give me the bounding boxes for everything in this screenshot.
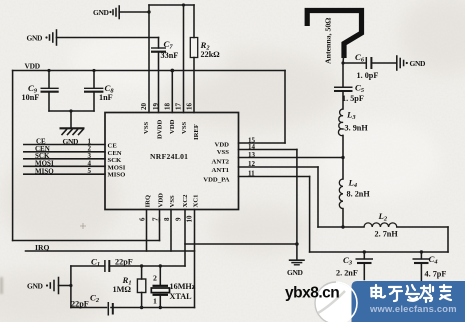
wire GND2 to C7 top xyxy=(57,37,159,39)
svg-text:22kΩ: 22kΩ xyxy=(201,50,221,59)
wire L2 rail left xyxy=(318,226,364,228)
junction node B (343,157.5) xyxy=(341,156,344,159)
svg-text:SCK: SCK xyxy=(108,157,123,164)
wire VDD rail xyxy=(13,70,285,72)
svg-text:MOSI: MOSI xyxy=(108,164,126,171)
svg-text:1. 5pF: 1. 5pF xyxy=(342,94,364,103)
capacitor C8 xyxy=(84,71,103,112)
svg-text:4. 7pF: 4. 7pF xyxy=(425,270,447,279)
svg-text:GND: GND xyxy=(410,59,427,68)
junction at (49,70.5) xyxy=(47,69,50,72)
wire pin11 VDD_PA xyxy=(239,176,310,178)
wire CEN xyxy=(24,151,105,153)
junction at (421.4,252) xyxy=(420,250,423,253)
svg-text:3. 9nH: 3. 9nH xyxy=(345,124,369,133)
wire riser (149,5)-(149,12) xyxy=(148,5,150,12)
svg-text:33nF: 33nF xyxy=(161,51,179,60)
inductor L4 xyxy=(339,179,343,209)
logo box elecfans xyxy=(336,281,465,322)
wire stub pin6 xyxy=(146,210,148,252)
svg-text:2. 2nF: 2. 2nF xyxy=(336,269,358,278)
wire L3 to node B xyxy=(342,135,344,157)
svg-text:Antenna, 50Ω: Antenna, 50Ω xyxy=(324,18,333,64)
wire H1 VDD feed to pin7 xyxy=(13,240,160,242)
svg-text:22pF: 22pF xyxy=(71,299,89,308)
wire bottom rail xyxy=(310,251,448,253)
svg-text:VDD: VDD xyxy=(158,193,165,208)
capacitor C4 xyxy=(413,252,431,281)
junction at (160.3,266) xyxy=(159,264,162,267)
ground GND2 xyxy=(27,30,57,45)
wire CE xyxy=(24,144,105,146)
junction at (183.5,5) xyxy=(182,3,185,6)
svg-text:VSS: VSS xyxy=(169,195,176,208)
wire crystal bottom xyxy=(71,307,107,309)
wire MISO xyxy=(24,173,105,175)
junction at (149,12) xyxy=(147,10,150,13)
svg-text:2. 7nH: 2. 7nH xyxy=(375,230,399,239)
wire stub pin20 (VSS) xyxy=(148,12,150,113)
svg-text:10nF: 10nF xyxy=(22,93,40,102)
svg-text:VDD: VDD xyxy=(25,62,40,71)
svg-text:VDD: VDD xyxy=(215,142,230,149)
capacitor C7 xyxy=(151,38,166,113)
wire stub pin8 xyxy=(170,210,172,252)
wire pin7 riser xyxy=(159,210,161,241)
svg-text:VSS: VSS xyxy=(143,121,150,134)
svg-text:17: 17 xyxy=(175,103,183,111)
wire pin14 drop to ground xyxy=(296,150,298,260)
wire MOSI xyxy=(24,165,105,167)
svg-text:8. 2nH: 8. 2nH xyxy=(347,190,371,199)
svg-text:6: 6 xyxy=(139,217,147,221)
junction at (138.6,308.5) xyxy=(140,306,143,309)
wire stub pin9 XC2 xyxy=(184,210,186,267)
wire stub pin17 riser xyxy=(183,5,185,113)
svg-text:IREF: IREF xyxy=(193,124,200,140)
logo text dianzi fashaoyou (stylized) xyxy=(371,285,451,302)
wire H2 IRQ line xyxy=(26,250,195,252)
svg-text:GND: GND xyxy=(27,282,44,291)
capacitor C1 xyxy=(105,260,109,272)
svg-text:CEN: CEN xyxy=(108,150,122,157)
svg-text:2: 2 xyxy=(153,274,157,283)
junction node A (343,63) xyxy=(341,61,344,64)
junction at (71,111) xyxy=(69,109,72,112)
ground GND4 (right of C6) xyxy=(397,56,426,70)
junction at (296.9,244) xyxy=(295,242,299,246)
svg-text:9: 9 xyxy=(175,217,183,221)
wire L2 rail right xyxy=(397,226,448,228)
ground GND1 (top) xyxy=(93,6,119,19)
svg-text:VDD_PA: VDD_PA xyxy=(203,176,229,183)
resistor R1 xyxy=(137,266,145,308)
inductor L2 (horizontal) xyxy=(364,223,397,227)
wire crystal top xyxy=(71,265,105,267)
crystal Y1 16MHz XTAL xyxy=(151,266,169,308)
svg-text:16MHz: 16MHz xyxy=(170,282,196,291)
svg-text:20: 20 xyxy=(140,103,148,111)
svg-text:ybx8.cn: ybx8.cn xyxy=(285,285,339,302)
wire pin14 VSS xyxy=(239,149,297,151)
svg-text:VDD: VDD xyxy=(169,119,176,134)
resistor R2 xyxy=(190,5,197,113)
wire node B to L4 xyxy=(342,158,344,180)
junction at (160.3,308.5) xyxy=(159,306,162,309)
svg-text:1. 0pF: 1. 0pF xyxy=(357,71,379,80)
junction at (70.9,285.5) xyxy=(69,284,72,287)
ground GND6 (bottom middle) xyxy=(287,260,305,277)
svg-text:CE: CE xyxy=(108,143,118,150)
scan edge smudge xyxy=(0,277,3,294)
wire crystal loop left side xyxy=(70,266,72,308)
svg-text:19: 19 xyxy=(152,103,160,111)
svg-text:MISO: MISO xyxy=(108,171,126,178)
svg-text:GND: GND xyxy=(93,8,110,17)
wire pin15 riser to VDD rail xyxy=(284,71,286,144)
junction at (94,70.5) xyxy=(92,69,95,72)
svg-text:VSS: VSS xyxy=(217,149,230,156)
svg-text:XC1: XC1 xyxy=(193,194,200,207)
wire pin11 drop xyxy=(309,177,311,253)
wire SCK xyxy=(24,158,105,160)
wire pin15 VDD xyxy=(239,142,286,144)
svg-text:1: 1 xyxy=(153,297,157,306)
svg-text:1nF: 1nF xyxy=(99,93,113,102)
wire GND1 to node xyxy=(119,11,149,13)
svg-text:7: 7 xyxy=(152,217,160,221)
scan speck xyxy=(156,218,161,223)
svg-text:GND: GND xyxy=(287,268,304,277)
capacitor C2 xyxy=(108,302,113,316)
wire stub pin18 riser xyxy=(171,71,173,113)
junction at (343,227) xyxy=(341,225,344,228)
capacitor C3 xyxy=(356,252,374,280)
wire H3 crystal-gnd link xyxy=(185,243,297,245)
capacitor C5 xyxy=(334,63,353,109)
ground GND5 (earth below C9/C8) xyxy=(60,111,85,146)
op-amp U1 nRF24L01 IC body xyxy=(105,113,239,210)
svg-text:NRF24L01: NRF24L01 xyxy=(150,152,188,161)
ground GND3 (crystal) xyxy=(27,278,71,294)
capacitor C9 xyxy=(41,71,59,112)
wire right corner drop xyxy=(447,227,449,252)
svg-text:8: 8 xyxy=(163,217,171,221)
antenna (50 Ohm) xyxy=(307,11,361,64)
wire top GND rail xyxy=(149,4,194,6)
svg-text:XC2: XC2 xyxy=(182,194,189,208)
junction at (364.3,252) xyxy=(363,250,366,253)
wire pin12 ANT1 xyxy=(239,166,319,168)
junction at (138.6,266) xyxy=(140,264,143,267)
svg-text:IRQ: IRQ xyxy=(145,195,152,208)
watermark ybx8.cn circle logo xyxy=(315,282,357,322)
wire L4 to rail xyxy=(342,209,344,227)
wire pin13 ANT2 xyxy=(239,157,344,159)
wire pin12 drop xyxy=(317,167,319,227)
wire stub pin10 XC1 xyxy=(194,210,196,308)
inductor L3 xyxy=(338,109,343,136)
svg-text:VSS: VSS xyxy=(181,121,188,134)
svg-text:www.elecfans.com: www.elecfans.com xyxy=(369,303,457,314)
svg-text:16: 16 xyxy=(186,103,194,111)
junction at (172.3,70.5) xyxy=(170,69,174,73)
svg-text:ANT2: ANT2 xyxy=(212,159,230,166)
capacitor C6 xyxy=(343,57,397,69)
svg-text:10: 10 xyxy=(186,215,194,223)
wire C9-C8 bottom connector xyxy=(49,110,94,112)
svg-text:22pF: 22pF xyxy=(115,258,133,267)
wire VDD left drop xyxy=(12,71,14,241)
svg-text:GND: GND xyxy=(27,34,44,43)
svg-text:XTAL: XTAL xyxy=(170,292,193,301)
svg-text:ANT1: ANT1 xyxy=(212,167,229,174)
svg-text:18: 18 xyxy=(164,103,172,111)
svg-text:DVDD: DVDD xyxy=(157,120,164,139)
scan speck plus mark xyxy=(80,223,86,229)
svg-text:1MΩ: 1MΩ xyxy=(113,285,132,294)
